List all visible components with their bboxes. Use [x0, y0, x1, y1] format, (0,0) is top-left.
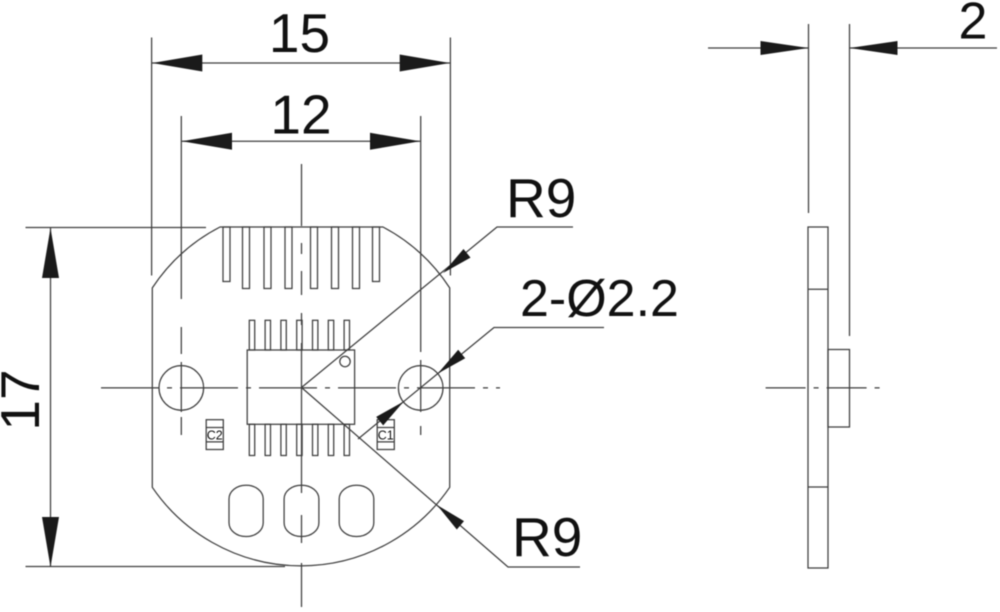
dim 17: bottom extension line [26, 566, 286, 568]
slot 1 [229, 485, 263, 536]
top pad teeth [223, 227, 230, 282]
arrow dim2 left [761, 41, 809, 55]
centerline left hole vertical [180, 116, 182, 435]
dim 15: extension lines [151, 38, 153, 276]
arrow dim15 left [152, 55, 202, 72]
arrow dim17 top [42, 228, 59, 278]
IC U1 body [247, 350, 354, 424]
hole left (Ø2.2) [159, 366, 204, 411]
IC pin-1 marker [340, 356, 350, 366]
dim 12: dimension line [181, 140, 420, 142]
capacitor C2 footprint [206, 420, 223, 450]
arrow dim12 right [370, 133, 420, 150]
hole right (Ø2.2) [398, 366, 443, 411]
svg-text:C2: C2 [207, 429, 223, 443]
side view board [808, 227, 828, 568]
svg-text:2: 2 [959, 0, 988, 51]
dim 2: dimension lines [708, 47, 809, 49]
svg-text:15: 15 [269, 2, 330, 64]
slot 3 [339, 485, 374, 536]
side view centerline [766, 387, 886, 389]
leader R9 top [302, 227, 574, 388]
capacitor C1 footprint [377, 420, 394, 450]
slot 2 [284, 485, 319, 536]
centerline vertical (board) [301, 164, 303, 607]
svg-text:12: 12 [270, 84, 331, 146]
arrow dim15 right [400, 55, 450, 72]
svg-text:17: 17 [0, 369, 51, 430]
IC upper pins [249, 320, 254, 350]
svg-text:C1: C1 [378, 429, 394, 443]
dim 17: top extension line [26, 227, 207, 229]
arrow leader R9 top [443, 249, 471, 273]
IC lower pins [249, 424, 254, 455]
centerline right hole vertical [420, 116, 422, 435]
centerline horizontal (holes/board) [101, 387, 500, 389]
arrow dim12 left [182, 133, 232, 150]
svg-text:2-Ø2.2: 2-Ø2.2 [520, 270, 679, 328]
dim 2: extension lines [808, 24, 810, 213]
leader R9 bottom [302, 388, 581, 568]
leader 2-d2.2 [358, 328, 604, 440]
board outline (front view) [152, 227, 449, 566]
svg-text:R9: R9 [506, 167, 576, 229]
svg-text:R9: R9 [512, 506, 582, 568]
dim 17: dimension line [50, 228, 52, 567]
arrow dim2 right [850, 41, 898, 55]
dim 15: dimension line [152, 62, 451, 64]
arrow leader R9 bottom [437, 505, 464, 530]
arrow dim17 bottom [42, 517, 59, 567]
side view IC bump [828, 350, 850, 428]
arrow leader d2.2 upper [438, 350, 466, 374]
arrow leader d2.2 lower [376, 402, 404, 426]
